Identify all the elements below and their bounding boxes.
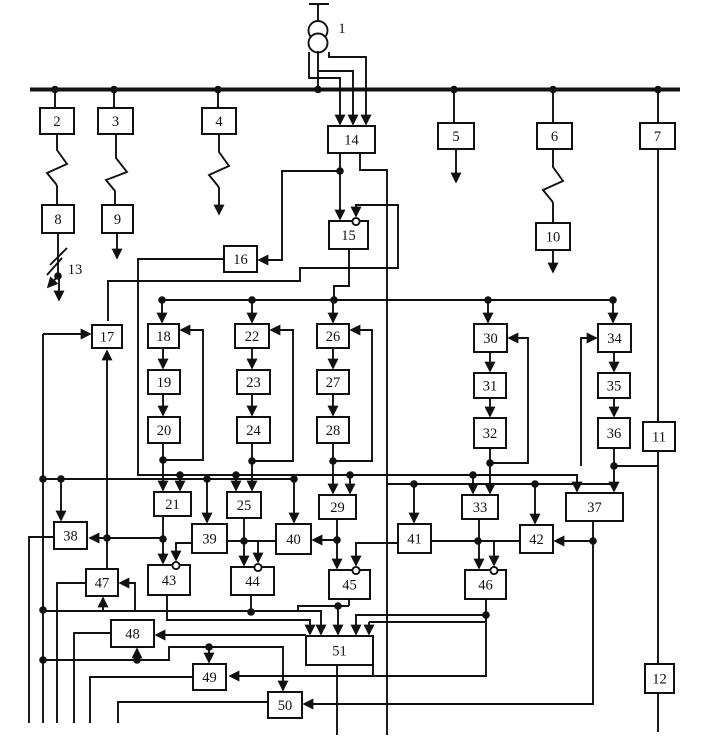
block 25 — [227, 492, 261, 518]
svg-text:3: 3 — [112, 114, 119, 130]
svg-text:10: 10 — [546, 230, 561, 246]
svg-text:18: 18 — [156, 329, 171, 345]
wire 49 left return — [90, 677, 193, 723]
junction y647 — [205, 643, 213, 651]
arrow L3 to 40 — [293, 479, 295, 522]
wire 11 to 12 — [657, 451, 659, 664]
junction dist — [609, 296, 617, 304]
junction 21 out — [159, 535, 167, 543]
svg-text:41: 41 — [407, 532, 422, 548]
svg-text:30: 30 — [483, 331, 498, 347]
block 36 — [598, 418, 630, 448]
junction at 13 — [54, 272, 62, 280]
wire 46 down — [485, 599, 487, 615]
wire to 38 right — [90, 537, 163, 539]
svg-text:26: 26 — [326, 329, 341, 345]
wire 12 down — [657, 693, 659, 732]
busbar — [30, 88, 680, 92]
junction L3 — [290, 475, 298, 483]
junction L4 — [410, 480, 418, 488]
wire 51 corner — [372, 665, 374, 676]
block 27 — [317, 370, 349, 394]
arrow into 42 right — [555, 540, 593, 542]
breaker under 2 — [47, 134, 67, 205]
breaker under 3 — [106, 134, 127, 205]
junction col2 — [248, 457, 256, 465]
svg-text:23: 23 — [246, 375, 261, 391]
svg-text:45: 45 — [342, 578, 357, 594]
block 33 — [462, 495, 498, 519]
svg-text:14: 14 — [344, 133, 359, 149]
junction L4 — [531, 480, 539, 488]
wire 46 to 51 — [356, 615, 486, 634]
wire 46 drop to 49 — [230, 615, 486, 676]
svg-text:6: 6 — [551, 129, 558, 145]
block 8 — [42, 205, 74, 233]
arrow up to 48 — [136, 649, 138, 660]
junction col1 — [159, 456, 167, 464]
junction 33 out — [474, 537, 482, 545]
arrow dist to 26 — [332, 300, 334, 322]
block 30 — [474, 324, 507, 352]
fault flash 13 — [47, 248, 67, 275]
wire 35-36 — [613, 398, 615, 416]
svg-text:48: 48 — [125, 627, 140, 643]
wire 20 down — [162, 443, 164, 460]
svg-text:40: 40 — [286, 532, 301, 548]
bus junction — [654, 86, 662, 94]
block 45 — [329, 570, 370, 599]
wire 18-19 — [162, 348, 164, 368]
junction 46 out — [482, 611, 490, 619]
block 2 — [40, 108, 74, 134]
junction 37 out — [589, 537, 597, 545]
arrow into 40 right — [313, 539, 337, 541]
breaker under 4 with arrow — [209, 134, 229, 214]
loop col3 to 26 — [333, 330, 372, 461]
svg-text:25: 25 — [237, 498, 252, 514]
block 49 — [193, 664, 226, 690]
label 13 — [68, 262, 83, 278]
wire 48 left return — [74, 633, 111, 723]
wire 7 to 11 — [657, 149, 659, 422]
junction x43 y610 — [39, 606, 47, 614]
block 18 — [148, 324, 179, 348]
svg-text:12: 12 — [652, 672, 667, 688]
arrow dist to 30 — [487, 300, 489, 322]
wire 30-31 — [489, 352, 491, 371]
junction 45 out — [334, 602, 342, 610]
wire 17 to 15 reset — [108, 205, 398, 321]
svg-text:35: 35 — [607, 379, 622, 395]
arrow L3 to 39 — [206, 479, 208, 522]
svg-text:49: 49 — [202, 670, 217, 686]
block 40 — [276, 524, 311, 554]
junction 25 out — [240, 537, 248, 545]
block 3 — [98, 108, 133, 134]
junction y660 a — [133, 656, 141, 664]
block 28 — [317, 417, 349, 443]
arrow col5 to 37 — [613, 466, 615, 491]
arrow 13 left — [48, 276, 58, 287]
bus junction — [214, 86, 222, 94]
wire 39 to 43 circle — [176, 543, 192, 560]
svg-text:13: 13 — [68, 262, 83, 278]
block 5 — [438, 123, 474, 149]
wire 5 down arrow — [455, 149, 457, 182]
loop col4 to 30 — [490, 338, 528, 463]
svg-text:8: 8 — [54, 212, 61, 228]
wire 10 down arrow — [552, 250, 554, 272]
wire 14 to 16 — [259, 171, 340, 260]
svg-text:42: 42 — [529, 532, 544, 548]
inhibit circle 43 — [172, 562, 179, 569]
block 39 — [192, 524, 227, 553]
loop col1 to 18 — [163, 330, 203, 460]
wire col5 right — [614, 465, 658, 467]
svg-text:39: 39 — [202, 532, 217, 548]
bus junction — [549, 86, 557, 94]
wire 28 down — [332, 443, 334, 461]
arrow y622 to 51 — [368, 622, 370, 634]
distribution line — [162, 299, 613, 301]
wire bus to 5 — [453, 91, 455, 123]
svg-text:16: 16 — [233, 252, 248, 268]
svg-text:47: 47 — [95, 576, 110, 592]
wire 32 down — [489, 448, 491, 463]
svg-text:9: 9 — [114, 212, 121, 228]
junction 44 out — [247, 608, 255, 616]
block 10 — [536, 223, 570, 250]
block 29 — [319, 495, 356, 519]
block 37 — [566, 493, 623, 521]
wire 34-35 — [613, 352, 615, 371]
arrow 13 down — [58, 276, 60, 300]
wire tap b — [317, 51, 319, 88]
bus junction — [450, 86, 458, 94]
junction 14 out — [336, 167, 344, 175]
block 9 — [102, 205, 133, 233]
svg-text:38: 38 — [63, 529, 78, 545]
block 41 — [398, 524, 431, 553]
block 20 — [148, 417, 180, 443]
wire to 46 circle — [493, 541, 495, 565]
left bus vertical — [42, 334, 44, 723]
arrow to 49 top — [208, 647, 210, 662]
svg-text:27: 27 — [326, 375, 341, 391]
svg-text:50: 50 — [278, 698, 293, 714]
block 31 — [474, 373, 506, 398]
arrow 45 to 51 — [337, 606, 339, 634]
block 6 — [537, 123, 572, 149]
wire 15 out — [334, 249, 349, 300]
inhibit circle 44 — [254, 564, 261, 571]
junction L2 — [176, 471, 184, 479]
junction 29 out — [333, 536, 341, 544]
svg-text:21: 21 — [165, 497, 180, 513]
arrow L2 to 25 — [235, 475, 237, 490]
arrow col2 to 25 — [251, 461, 253, 490]
block 48 — [111, 620, 154, 647]
wire 24 down — [251, 443, 253, 461]
block 50 — [268, 692, 302, 718]
wire bus to 4 — [217, 91, 219, 108]
wire to 17 left — [43, 333, 90, 335]
junction dist — [484, 296, 492, 304]
line L4 — [387, 483, 614, 485]
wire tap d — [329, 52, 366, 124]
bus junction — [314, 86, 322, 94]
junction x107 — [103, 534, 111, 542]
block 24 — [237, 417, 270, 443]
svg-text:46: 46 — [478, 578, 493, 594]
arrow L3 to 38 — [60, 479, 62, 520]
block 23 — [237, 370, 270, 394]
wire 47 left return — [57, 583, 86, 723]
svg-text:31: 31 — [483, 379, 498, 395]
arrow col3 to 29 — [332, 461, 334, 493]
wire 41 to 42 — [431, 540, 520, 542]
label 1 — [338, 21, 345, 37]
block 38 — [54, 522, 87, 549]
wire 33 down — [478, 519, 480, 541]
wire bus to 7 — [657, 91, 659, 123]
breaker under 6 — [543, 149, 563, 223]
line y622 — [369, 621, 486, 623]
arrow 21 to 43 — [162, 539, 164, 563]
wire 50 left return — [118, 702, 268, 723]
arrow dist to 22 — [251, 300, 253, 322]
junction col5 — [610, 462, 618, 470]
wire to 44 circle — [257, 541, 259, 562]
junction dist — [158, 296, 166, 304]
block 43 — [148, 565, 190, 595]
wire 9 down arrow — [116, 233, 118, 258]
junction L2 — [346, 471, 354, 479]
wire bus to 6 — [552, 91, 554, 123]
wire bus to 2 — [54, 91, 56, 108]
inhibit circle 15 — [352, 218, 359, 225]
wire 36 down — [613, 448, 615, 466]
bus junction — [51, 86, 59, 94]
arrow L4 to 41 — [413, 484, 415, 522]
line L3 — [43, 478, 294, 480]
junction L3 — [203, 475, 211, 483]
wire bus to 3 — [113, 91, 115, 108]
wire 23-24 — [251, 394, 253, 415]
block 22 — [235, 324, 269, 348]
wire riser to 47 right — [120, 583, 135, 611]
arrow L2 to 21 — [179, 475, 181, 490]
loop col2 to 22 — [252, 330, 293, 461]
svg-text:28: 28 — [326, 423, 341, 439]
arrow up to 47 — [102, 598, 104, 611]
wire tap a — [309, 52, 340, 124]
block 26 — [317, 324, 349, 348]
arrow 29 to 45 — [336, 540, 338, 568]
svg-text:11: 11 — [652, 430, 666, 446]
arrow L2 to 33 — [472, 475, 474, 493]
block 47 — [86, 569, 118, 596]
wire jog 606 — [298, 606, 349, 611]
wire 14 to 15 — [339, 153, 341, 219]
arrow up to 17 — [106, 351, 108, 538]
block 14 — [328, 126, 375, 153]
wire 41 to 45 circle — [356, 543, 398, 565]
loop col5 to 34 — [581, 338, 596, 466]
block 21 — [154, 492, 191, 516]
wire 16 out line L2 — [138, 259, 577, 491]
svg-text:51: 51 — [332, 644, 347, 660]
wire 25 to 44 — [243, 518, 245, 565]
block 34 — [598, 324, 631, 352]
junction x43 L3 — [39, 475, 47, 483]
block 51 — [306, 636, 373, 665]
arrow col1 to 21 — [162, 460, 164, 490]
svg-text:15: 15 — [341, 228, 356, 244]
block 42 — [520, 525, 553, 553]
arrow dist to 18 — [161, 300, 163, 322]
svg-text:7: 7 — [654, 129, 661, 145]
block 46 — [465, 570, 506, 599]
svg-text:29: 29 — [330, 500, 345, 516]
wire 43 out — [167, 595, 310, 634]
arrow L2 to 29 — [349, 475, 351, 493]
inhibit circle 46 — [490, 567, 497, 574]
junction col3 — [329, 457, 337, 465]
svg-text:24: 24 — [246, 423, 261, 439]
wire 51 to 48 — [156, 634, 306, 636]
svg-text:5: 5 — [452, 129, 459, 145]
svg-text:17: 17 — [100, 330, 115, 346]
svg-text:43: 43 — [162, 573, 177, 589]
svg-text:37: 37 — [587, 500, 602, 516]
svg-text:33: 33 — [473, 500, 488, 516]
svg-text:36: 36 — [607, 426, 622, 442]
wire 14 right drop — [360, 153, 387, 735]
line y660 feed — [43, 647, 283, 690]
wire 26-27 — [332, 348, 334, 368]
wire 27-28 — [332, 394, 334, 415]
svg-text:34: 34 — [607, 331, 622, 347]
block 4 — [202, 108, 236, 134]
wire 45 down — [348, 599, 350, 606]
svg-text:22: 22 — [245, 329, 260, 345]
wire 29 down — [336, 519, 338, 540]
wire 8 down — [57, 233, 59, 276]
junction L3 — [57, 475, 65, 483]
wire 22-23 — [251, 348, 253, 368]
block 44 — [231, 567, 274, 595]
wire tap c — [318, 71, 353, 124]
svg-text:19: 19 — [157, 375, 172, 391]
wire 44 down — [250, 595, 252, 612]
wire 19-20 — [162, 394, 164, 415]
block 12 — [645, 664, 674, 693]
block 32 — [474, 418, 506, 448]
wire 51 bottom — [336, 665, 338, 735]
junction L2 — [232, 471, 240, 479]
block 16 — [224, 246, 257, 272]
svg-text:32: 32 — [483, 426, 498, 442]
wire 37 down — [592, 521, 594, 541]
inhibit circle 45 — [352, 567, 359, 574]
wire x107 to 47 top — [106, 538, 108, 569]
arrow dist to 34 — [612, 300, 614, 322]
wire 21 down — [162, 516, 164, 539]
line y612 — [43, 611, 321, 634]
svg-text:4: 4 — [215, 114, 223, 130]
arrow 33 to 46 — [478, 541, 480, 568]
block 19 — [148, 370, 180, 394]
wire 31-32 — [489, 398, 491, 416]
arrow col4 to 33 — [489, 463, 491, 493]
svg-text:20: 20 — [157, 423, 172, 439]
block 35 — [598, 373, 630, 398]
block 15 — [329, 221, 368, 249]
block 17 — [92, 325, 122, 348]
block 7 — [640, 123, 675, 149]
bus junction — [110, 86, 118, 94]
svg-text:1: 1 — [338, 21, 345, 37]
block 11 — [643, 422, 675, 451]
svg-text:44: 44 — [245, 574, 260, 590]
junction dist — [248, 296, 256, 304]
svg-text:2: 2 — [53, 114, 60, 130]
arrow L4 to 42 — [534, 484, 536, 523]
junction dist — [330, 296, 338, 304]
wire 37 to 50 — [304, 541, 593, 704]
junction L2 — [469, 471, 477, 479]
transformer T1 symbol — [309, 4, 330, 53]
junction col4 — [486, 459, 494, 467]
wire 39 to 40 — [227, 540, 276, 542]
wire 38 left return — [29, 537, 54, 723]
junction x43 y660 — [39, 656, 47, 664]
